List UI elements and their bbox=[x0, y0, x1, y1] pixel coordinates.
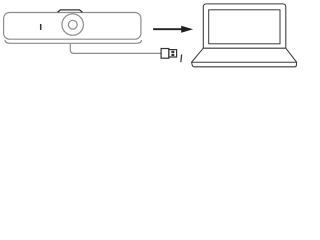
webcam LED indicator bbox=[40, 24, 42, 30]
webcam lens outer ring bbox=[62, 14, 83, 35]
laptop screen inner bbox=[209, 10, 280, 44]
arrow bbox=[153, 26, 193, 33]
usb contact hole upper bbox=[171, 51, 174, 53]
webcam body bbox=[4, 13, 141, 40]
usb plug metal tip bbox=[169, 50, 177, 57]
laptop screen outer bbox=[203, 4, 285, 48]
webcam top tab bbox=[58, 10, 83, 12]
webcam lens inner ring bbox=[68, 20, 77, 29]
laptop deck top edge bbox=[203, 47, 285, 49]
laptop deck front edge bbox=[192, 61, 297, 63]
usb cable bbox=[70, 43, 161, 53]
laptop deck and lip bbox=[192, 48, 297, 67]
laptop port tick bbox=[180, 54, 183, 62]
usb plug body bbox=[161, 49, 169, 59]
webcam bottom rim bbox=[5, 40, 142, 43]
usb contact hole lower bbox=[171, 54, 174, 56]
